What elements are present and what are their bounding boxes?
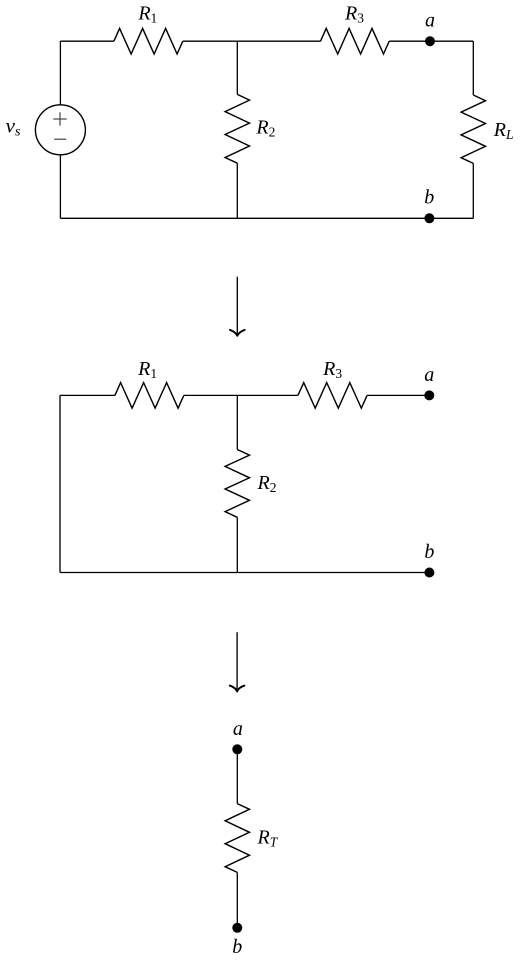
svg-text:a: a bbox=[425, 10, 435, 32]
svg-text:a: a bbox=[233, 718, 243, 740]
node a (mid circuit) bbox=[424, 390, 434, 400]
resistor R1 (mid circuit) bbox=[115, 383, 184, 409]
wire from node a to RT bbox=[236, 749, 238, 803]
svg-text:R2: R2 bbox=[257, 472, 277, 495]
arrow 1 (downward) bbox=[236, 277, 238, 334]
svg-text:R2: R2 bbox=[255, 116, 275, 139]
minus sign of source bbox=[54, 138, 66, 140]
svg-text:R3: R3 bbox=[322, 358, 342, 381]
svg-text:R3: R3 bbox=[344, 3, 364, 26]
resistor R3 bbox=[321, 28, 390, 54]
wire top-right segment bbox=[389, 40, 473, 42]
resistor RL bbox=[461, 95, 485, 163]
svg-text:RL: RL bbox=[493, 119, 514, 142]
resistor R1 bbox=[114, 28, 183, 54]
voltage source vs bbox=[35, 105, 85, 155]
wire mid-circuit left segment bbox=[59, 395, 61, 572]
wire right-bottom segment bbox=[472, 163, 474, 218]
wire from RT to node b bbox=[236, 872, 238, 927]
svg-text:a: a bbox=[424, 364, 434, 386]
wire mid branch bottom bbox=[236, 517, 238, 572]
resistor RT bbox=[225, 804, 249, 873]
wire left-top segment bbox=[59, 41, 61, 105]
resistor R2 (mid circuit) bbox=[225, 450, 249, 518]
wire middle branch top bbox=[236, 41, 238, 94]
wire mid-circuit top-left segment bbox=[60, 394, 115, 396]
wire top-left segment bbox=[60, 40, 114, 42]
wire mid branch top bbox=[236, 395, 238, 449]
svg-text:vs: vs bbox=[6, 113, 21, 139]
node a (bottom) bbox=[232, 744, 242, 754]
wire middle branch bottom bbox=[236, 163, 238, 218]
wire right-top segment bbox=[472, 41, 474, 95]
arrow 2 (downward) bbox=[236, 632, 238, 689]
svg-text:b: b bbox=[424, 187, 434, 209]
svg-text:R1: R1 bbox=[137, 358, 157, 381]
wire top-middle segment bbox=[183, 40, 321, 42]
wire left-bottom segment bbox=[59, 155, 61, 219]
node b (bottom) bbox=[232, 923, 242, 933]
node a (top circuit) bbox=[425, 36, 435, 46]
resistor R2 bbox=[225, 94, 249, 163]
wire mid-circuit bottom segment bbox=[60, 572, 429, 574]
node b (top circuit) bbox=[424, 213, 434, 223]
svg-text:RT: RT bbox=[257, 827, 279, 850]
svg-text:b: b bbox=[424, 541, 434, 563]
resistor R3 (mid circuit) bbox=[298, 383, 367, 409]
wire mid-circuit top-right segment bbox=[367, 394, 429, 396]
svg-text:b: b bbox=[232, 936, 242, 958]
svg-text:R1: R1 bbox=[137, 3, 157, 26]
node b (mid circuit) bbox=[424, 568, 434, 578]
plus sign of source bbox=[53, 118, 66, 120]
wire mid-circuit top-middle segment bbox=[184, 394, 298, 396]
wire bottom segment bbox=[60, 217, 473, 219]
